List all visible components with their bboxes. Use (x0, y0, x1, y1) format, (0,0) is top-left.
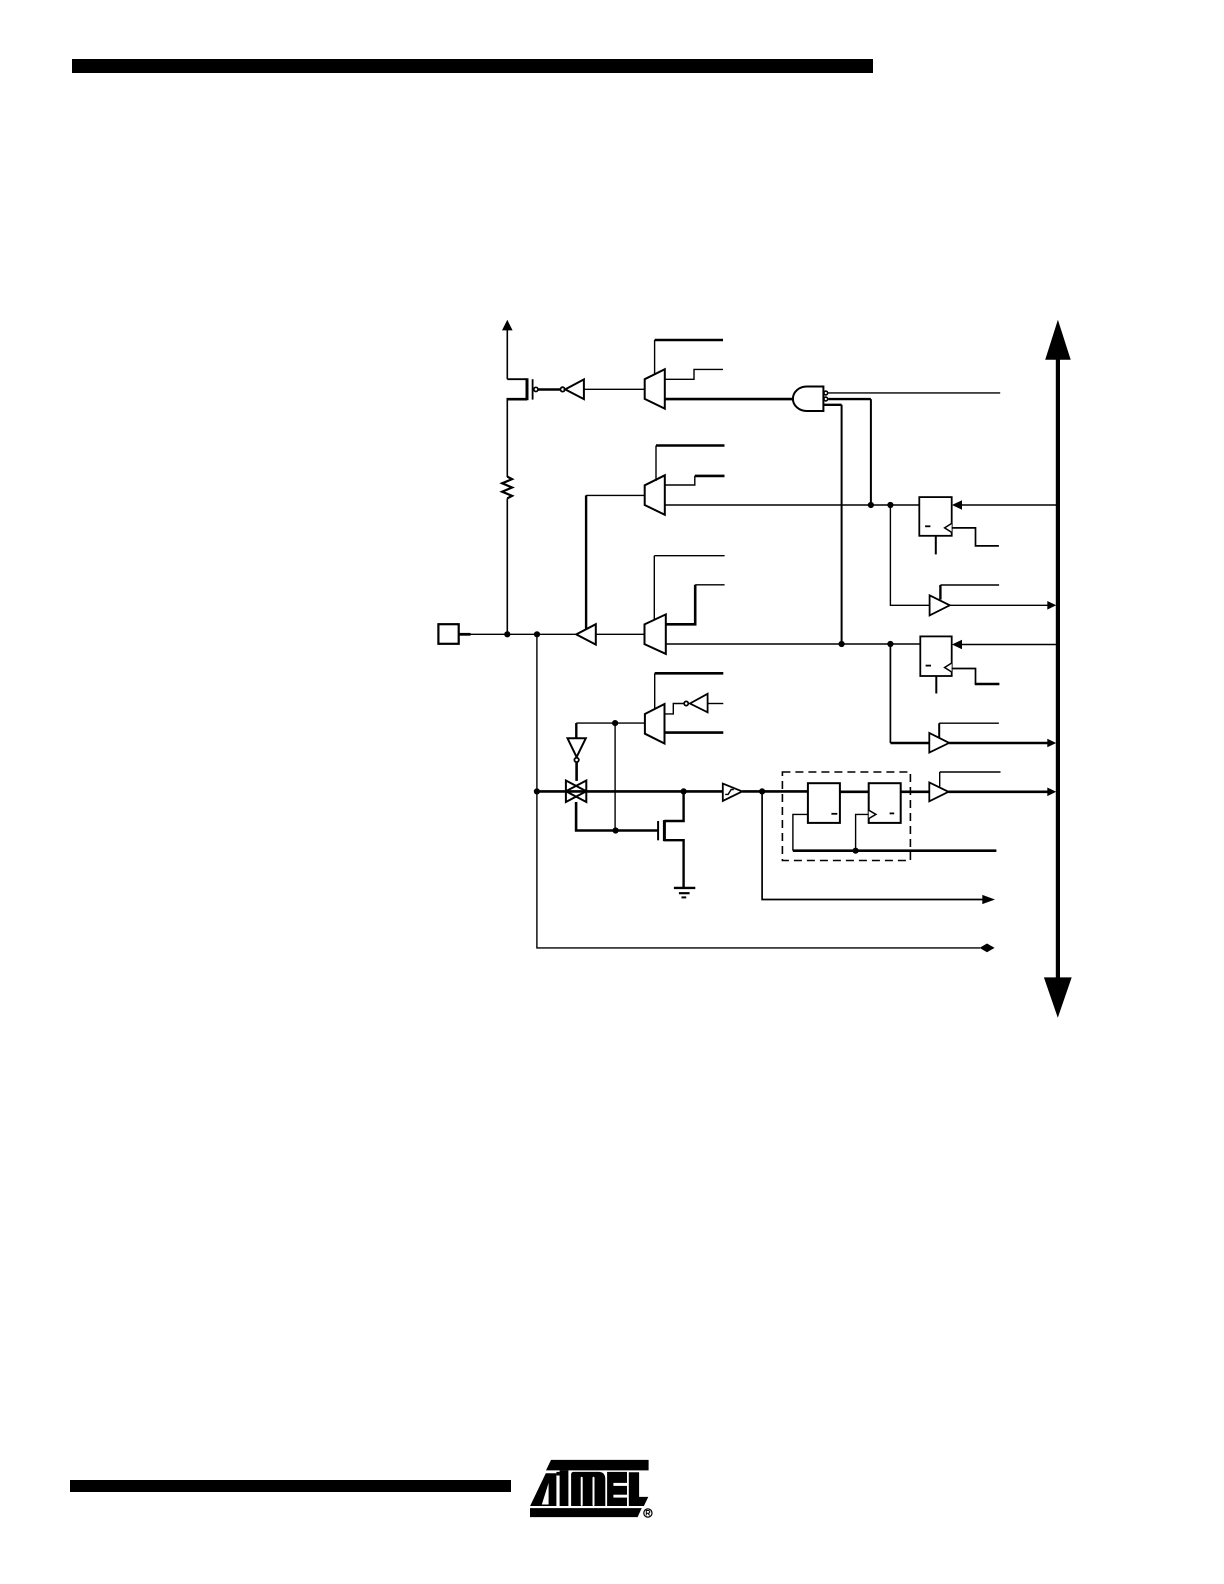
wire RPx enable (939, 723, 999, 737)
wire M4 bottom input line (665, 731, 724, 734)
wire L2 clock riser (856, 814, 869, 850)
node clamp gate junction (613, 827, 619, 833)
wire RDx enable (940, 585, 999, 600)
wire M4 top input riser (654, 673, 656, 709)
flip-flop PORTxn (920, 636, 951, 676)
wire M4 output to inverter U4 (575, 723, 577, 738)
arrow RDx to data bus (1047, 601, 1056, 610)
data bus bottom arrow (1044, 977, 1072, 1017)
flip-flop DDxn (919, 497, 951, 536)
wire M3 output to output driver (596, 633, 645, 635)
wire WDx clock (952, 528, 999, 546)
wire M3 bottom input from PORTxn Q (666, 643, 921, 645)
synchronizer dashed box (782, 772, 910, 861)
tri-state output driver (576, 624, 596, 644)
mux M4 (digital input enable) (645, 704, 665, 744)
latch L1 (808, 783, 840, 823)
wire SLEEP input (708, 703, 724, 705)
registered trademark symbol (644, 1509, 652, 1517)
wire resistor to pin line (506, 498, 508, 634)
mux M1 (pull-up enable) (645, 369, 665, 409)
Atmel logo letter M (571, 1472, 605, 1506)
wire M2 output to output-driver enable (586, 495, 645, 628)
latch L2 (869, 783, 901, 823)
pass gate (analog switch) (566, 781, 586, 803)
Atmel logo letter E (607, 1472, 627, 1506)
wire pin line (470, 633, 576, 635)
wire U3 output into M4 (665, 704, 685, 714)
Atmel logo letter L (629, 1472, 649, 1506)
wire AIOxn analog line (537, 634, 980, 948)
wire M3 second input step (666, 585, 725, 625)
wire M1 top input line (655, 339, 723, 342)
wire PINxn output to data bus (949, 790, 1049, 793)
inverter U4 (pass-gate control, pointing down) (568, 738, 586, 762)
tri-state buffer RDx (930, 595, 950, 615)
Atmel logo bottom bar (530, 1508, 642, 1517)
wire U1 input from mux M1 (584, 388, 645, 390)
wire M1 top input riser (654, 340, 656, 375)
schmitt trigger input buffer (723, 784, 742, 801)
wire L2 output to PINxn buffer (901, 790, 930, 793)
inverter U1 (pull-up gate driver) (560, 379, 584, 399)
wire RDx output to data bus (950, 604, 1048, 606)
Atmel logo letter T (556, 1470, 568, 1506)
AND gate (pull-up logic, facing left) (793, 387, 824, 412)
VCC supply arrow (502, 320, 513, 379)
wire pass gate to clamp gate (576, 802, 658, 831)
wire DDxn reset stub (935, 536, 937, 555)
tri-state buffer RPx (929, 733, 949, 753)
wire M2 top input riser (655, 446, 657, 481)
wire M2 bottom input from DDxn Q (665, 504, 920, 506)
wire AND input from DDxn (828, 399, 871, 505)
wire RPx buffer input (890, 644, 929, 743)
wire PINxn read enable (940, 772, 1001, 787)
wire VCC to resistor (506, 399, 508, 477)
wire AND input from PORTxn (823, 405, 841, 644)
wire schmitt output to synchronizer (742, 790, 808, 793)
pin pad box Pxn (438, 624, 458, 644)
wire PUD input (828, 392, 1000, 394)
AND gate input bubbles (824, 391, 828, 401)
pad stub (459, 633, 471, 636)
node clk junction (853, 848, 859, 854)
node clamp drain junction (681, 788, 687, 794)
arrow data bus to DDxn D (952, 500, 962, 509)
wire clk io line (793, 849, 997, 852)
node input tap (534, 631, 540, 637)
wire M1 second input step (665, 369, 723, 379)
Atmel logo top bar (546, 1460, 649, 1471)
wire M3 top input line (654, 555, 724, 557)
wire WPx clock (952, 669, 1000, 685)
arrow RPx to data bus (1047, 739, 1056, 748)
wire L1 enable loop (793, 814, 808, 850)
mux M2 (direction control) (645, 475, 665, 515)
arrow PINxn to data bus (1047, 788, 1056, 797)
wire RDx buffer input (890, 505, 929, 605)
node DDxn-Q / AND branch (868, 502, 874, 508)
node schmitt output branch (759, 788, 765, 794)
tri-state buffer PINxn read (929, 782, 948, 801)
inverter U3 (sleep) (684, 694, 707, 713)
wire M2 second input step (665, 476, 725, 485)
node pull-up tap (504, 631, 510, 637)
wire M4 output (576, 722, 645, 724)
data bus line (1056, 360, 1060, 978)
wire M3 top input riser (653, 556, 655, 620)
wire U4 output to pass gate (575, 762, 578, 781)
node M4 output branch (612, 720, 618, 726)
pull-up resistor (502, 477, 512, 499)
wire M1 bottom input from AND gate output (665, 398, 794, 401)
wire between latches (840, 790, 869, 793)
wire DIxn digital input (762, 791, 983, 899)
arrow DIxn (982, 895, 995, 904)
header rule bar (72, 59, 873, 73)
wire schmitt input line (537, 790, 723, 793)
clamp NMOS transistor (658, 791, 684, 888)
pull-up PMOS transistor (507, 378, 561, 400)
mux M3 (port value) (645, 614, 666, 654)
node DDxn-Q / RDx branch (887, 502, 893, 508)
wire M2 top input line (656, 444, 725, 447)
node pin to schmitt tap (534, 788, 540, 794)
diamond AIOxn terminal (980, 944, 995, 953)
ground (674, 888, 695, 898)
node PORTxn-Q / AND branch (839, 641, 845, 647)
arrow data bus to PORTxn D (952, 640, 962, 649)
wire M4 top input line (655, 672, 724, 675)
data bus top arrow (1045, 320, 1071, 360)
wire PORTxn D to data bus (961, 644, 1056, 646)
footer rule bar (70, 1480, 511, 1492)
wire PORTxn reset stub (935, 676, 937, 694)
wire M4 output to clamp gate (614, 723, 616, 830)
node PORTxn-Q / RPx branch (887, 641, 893, 647)
wire DDxn D to data bus (961, 504, 1056, 506)
Atmel logo letter A (530, 1473, 556, 1506)
wire RPx output to data bus (949, 742, 1048, 744)
